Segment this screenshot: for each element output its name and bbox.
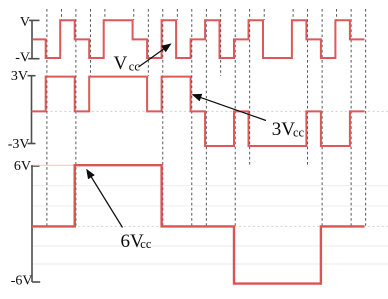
svg-text:V: V bbox=[20, 15, 30, 30]
axis (bottom waveform) bbox=[31, 166, 40, 282]
wave Vcc (top waveform, levels V/0/-V) bbox=[33, 20, 365, 58]
svg-text:cc: cc bbox=[293, 125, 305, 139]
node zero line (bottom waveform 0V, dotted) bbox=[32, 225, 388, 227]
arrow to Vcc bbox=[139, 44, 171, 67]
axis (top waveform) bbox=[28, 20, 39, 58]
faint level line -4V bbox=[31, 263, 388, 265]
svg-text:V: V bbox=[114, 53, 128, 74]
faint level line 2V bbox=[31, 205, 388, 207]
node zero line (middle waveform 0V, dotted) bbox=[32, 110, 388, 112]
arrow to 6Vcc bbox=[87, 170, 123, 228]
faint level line 4V bbox=[31, 185, 388, 187]
svg-text:cc: cc bbox=[129, 60, 141, 74]
svg-text:6V: 6V bbox=[14, 159, 31, 174]
svg-text:3V: 3V bbox=[272, 119, 296, 140]
faint level line -2V bbox=[31, 245, 388, 247]
svg-text:cc: cc bbox=[140, 237, 152, 251]
wave 3Vcc (middle waveform, levels 3V/0/-3V) bbox=[32, 77, 365, 146]
wire grid: dashed vertical gridlines bbox=[47, 9, 366, 226]
svg-text:3V: 3V bbox=[11, 69, 28, 84]
arrow to 3Vcc bbox=[193, 95, 266, 121]
svg-text:-V: -V bbox=[15, 51, 30, 66]
svg-text:-6V: -6V bbox=[11, 274, 33, 289]
svg-text:-3V: -3V bbox=[8, 137, 30, 152]
wave 6Vcc (bottom waveform, levels 6V/0/-6V) bbox=[32, 165, 365, 283]
faint 6V level stub left of pulse bbox=[33, 164, 74, 166]
axis (middle waveform) bbox=[28, 76, 36, 144]
